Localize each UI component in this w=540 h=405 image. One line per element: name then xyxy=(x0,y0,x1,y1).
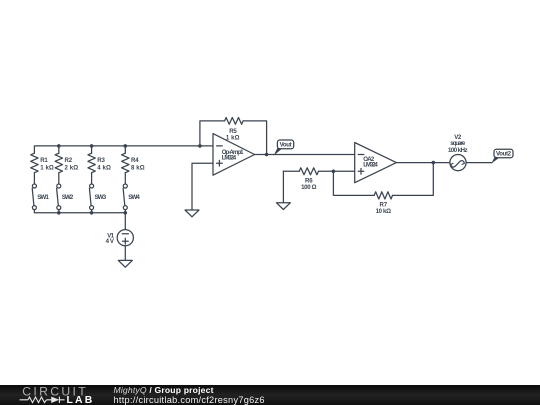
svg-text:LM324: LM324 xyxy=(222,154,237,161)
svg-text:R3: R3 xyxy=(97,157,105,164)
svg-text:LM324: LM324 xyxy=(363,162,378,169)
svg-text:R2: R2 xyxy=(65,157,73,164)
svg-text:SW3: SW3 xyxy=(95,194,107,201)
svg-text:8 kΩ: 8 kΩ xyxy=(131,165,145,172)
svg-text:2 kΩ: 2 kΩ xyxy=(65,165,79,172)
svg-text:1 kΩ: 1 kΩ xyxy=(40,165,54,172)
svg-text:LAB: LAB xyxy=(67,395,95,405)
svg-text:100 kHz: 100 kHz xyxy=(448,147,468,154)
svg-text:SW1: SW1 xyxy=(37,194,49,201)
svg-text:4 V: 4 V xyxy=(106,238,115,245)
svg-text:10 kΩ: 10 kΩ xyxy=(376,208,392,215)
svg-text:1 kΩ: 1 kΩ xyxy=(226,134,240,141)
svg-text:R1: R1 xyxy=(40,157,48,164)
svg-text:100 Ω: 100 Ω xyxy=(301,184,317,191)
svg-text:Vout2: Vout2 xyxy=(496,151,512,158)
svg-text:R4: R4 xyxy=(131,157,139,164)
svg-text:SW4: SW4 xyxy=(128,194,140,201)
svg-text:Vout: Vout xyxy=(280,142,292,149)
svg-text:SW2: SW2 xyxy=(62,194,74,201)
svg-text:square: square xyxy=(450,140,466,147)
svg-text:4 kΩ: 4 kΩ xyxy=(97,165,111,172)
